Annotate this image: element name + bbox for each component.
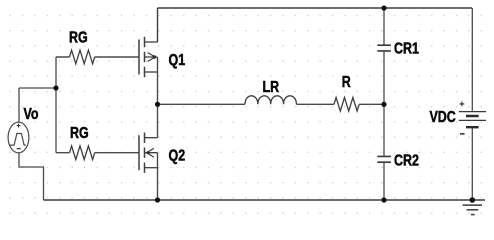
- capacitor CR2: [377, 156, 391, 162]
- wire gate bus vertical (node A to both RG): [55, 57, 57, 153]
- resistor R: [334, 98, 359, 112]
- node middle-left (Q1 source / Q2 drain / LR): [155, 102, 160, 107]
- wire RG2 leads: [56, 152, 139, 154]
- node A (gate bus junction): [53, 85, 58, 90]
- wire Q1 source to middle rail: [157, 72, 159, 104]
- resistor RG2: [70, 146, 95, 160]
- svg-text:Q2: Q2: [169, 147, 186, 165]
- node top rail / CR1: [381, 5, 386, 10]
- wire Q2 source to bottom rail: [157, 168, 159, 200]
- wire middle rail R to node: [359, 103, 384, 105]
- ground: [463, 205, 482, 215]
- wire right vertical lower (VDC - to bottom rail): [471, 127, 473, 200]
- voltage source Vo: [8, 122, 29, 153]
- wire top rail from Q1 drain to right vertical: [158, 7, 473, 9]
- svg-text:CR2: CR2: [394, 152, 419, 170]
- wire Vo bottom to bottom rail: [19, 152, 44, 200]
- node middle-right (R / CR1 / CR2): [381, 102, 386, 107]
- wire Q2 drain to middle rail: [157, 104, 159, 137]
- node bottom rail / Q2 source: [155, 197, 160, 202]
- inductor LR: [245, 96, 296, 104]
- svg-text:Vo: Vo: [24, 106, 39, 124]
- transistor Q2: [139, 133, 158, 173]
- resistor RG1: [70, 50, 95, 64]
- node bottom rail / CR2: [381, 197, 386, 202]
- wire right vertical upper (top rail to VDC +): [471, 8, 473, 111]
- wire CR2 branch vertical upper: [383, 104, 385, 156]
- wire Vo top to node A: [19, 88, 56, 123]
- wire CR2 branch vertical lower: [383, 163, 385, 200]
- svg-text:RG: RG: [69, 29, 88, 47]
- capacitor CR1: [377, 45, 391, 51]
- svg-text:VDC: VDC: [430, 109, 456, 127]
- wire CR1 branch vertical upper: [383, 8, 385, 45]
- wire middle rail left segment: [158, 103, 246, 105]
- wire bottom rail: [44, 199, 486, 201]
- svg-text:Q1: Q1: [169, 51, 186, 69]
- svg-text:RG: RG: [70, 125, 89, 143]
- wire middle rail between LR and R: [297, 103, 335, 105]
- node bottom rail / VDC- / ground: [470, 197, 476, 203]
- wire RG1 leads: [56, 56, 139, 58]
- svg-text:R: R: [342, 74, 352, 92]
- wire Q1 drain to top rail: [157, 8, 159, 42]
- svg-text:LR: LR: [263, 79, 280, 97]
- transistor Q1: [139, 37, 158, 77]
- svg-text:CR1: CR1: [394, 40, 419, 58]
- wire CR1 branch vertical lower: [383, 52, 385, 105]
- battery VDC: [459, 102, 486, 134]
